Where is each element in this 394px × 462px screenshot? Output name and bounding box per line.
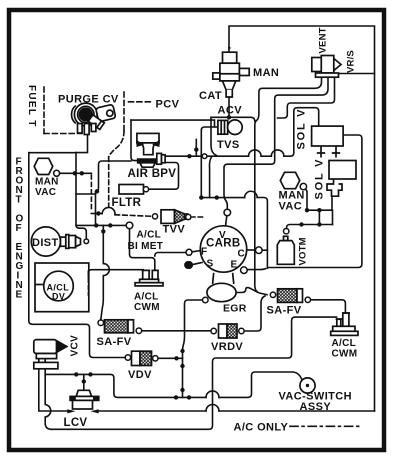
VRDV valve [219, 324, 238, 338]
wire: AIR BPV feed from enclosure y=194 [76, 193, 96, 195]
svg-text:E: E [231, 259, 238, 270]
SOL V 1 terminal pins [317, 146, 340, 158]
dashed fuel tank line vertical x=44 [43, 87, 45, 134]
svg-text:F: F [16, 223, 22, 234]
dashed PCV hook curve down to x=108.7 [109, 131, 124, 157]
svg-text:A/CL: A/CL [332, 338, 357, 349]
wire: VOTM line y=224.5 [287, 225, 333, 229]
svg-text:MAN: MAN [35, 177, 59, 188]
wire: solid FLTR tee line y=213.5 [91, 213, 102, 215]
wire 3: VR/S right leg to wire2 vertical [278, 77, 335, 118]
svg-text:SOL V: SOL V [296, 108, 308, 150]
port circle TVV right [186, 214, 191, 219]
port circle VDV right [153, 356, 158, 361]
port circle SA-FV 1 left [270, 292, 275, 297]
svg-text:VR/S: VR/S [346, 50, 357, 73]
wire: CARB F port stub [192, 251, 201, 252]
port circle trunk tap [202, 154, 207, 159]
wire hop on y=397.4 at x=212.5 [206, 391, 219, 398]
wire: AIR BPV top wire y=120.1 to TVS jog [131, 120, 215, 127]
wire: vertical x=103.3 from BIMET line to SA-FV2, hop over y=269.7 [101, 225, 110, 319]
A/C ONLY dash-dot line [290, 425, 361, 427]
svg-text:VDV: VDV [128, 369, 152, 381]
dashed line to TVV left port [115, 215, 152, 217]
wire: SA-FV2 left port riser stub [100, 319, 102, 321]
LCV valve [67, 390, 98, 413]
vac-switch center dot [306, 384, 309, 387]
dashed vertical x=108.7 to FLTR-line hop [108, 157, 110, 207]
wire: MAN VAC hexagon port to dashed drop [60, 172, 92, 174]
A/CL DV stub [35, 284, 44, 286]
wire: CARB C port stub to vertical [256, 249, 268, 251]
svg-text:DIST: DIST [32, 237, 59, 249]
svg-text:ASSY: ASSY [300, 401, 332, 413]
wire: FLTR port to AIR BPV barrel lower line [149, 163, 179, 190]
svg-text:SOL V: SOL V [314, 158, 326, 200]
port circle MAN VAC 1 [54, 170, 60, 176]
port circle SA-FV 1 right [305, 297, 310, 302]
svg-text:S: S [207, 258, 214, 269]
A/CL CWM 2 air cleaner [331, 313, 358, 335]
svg-text:VAC: VAC [279, 201, 303, 213]
dashed vertical x=91.4 [90, 175, 92, 212]
port circle VRDV right [239, 328, 244, 333]
svg-text:EGR: EGR [223, 303, 247, 315]
wire: VDV right port line to x=182.5 [158, 357, 182, 359]
svg-text:A/CL: A/CL [134, 292, 159, 303]
wire: trunk stub tap x=196.3 [195, 140, 197, 157]
wire: SA-FV1 right port to A/CL CWM2 [311, 300, 346, 313]
svg-text:DV: DV [52, 292, 65, 302]
left enclosure right edge x=76 with jog to DIST port [76, 153, 86, 239]
svg-text:SA-FV: SA-FV [97, 336, 132, 348]
purge solid stub to legs [76, 135, 88, 153]
port circle SA-FV 2 right [136, 328, 142, 334]
wire: VCV pipe right line down with hop over y=411, to y=429 line [45, 369, 51, 429]
svg-text:A/C ONLY: A/C ONLY [234, 422, 289, 434]
svg-text:VCV: VCV [70, 335, 81, 356]
wire: junction to SOL V1 right side riser x=361.9 [267, 135, 362, 268]
VR/S regulator [312, 56, 341, 78]
svg-text:E: E [16, 290, 23, 301]
svg-text:TVV: TVV [163, 224, 186, 236]
wire: EGR right arc up to SA-FV1 junction [236, 288, 258, 293]
FLTR filter [119, 185, 144, 195]
svg-text:AIR BPV: AIR BPV [128, 168, 177, 180]
svg-text:PURGE CV: PURGE CV [58, 94, 119, 106]
MAN VAC 2 hexagon [280, 172, 299, 188]
svg-text:FLTR: FLTR [112, 197, 142, 209]
port circle A/CL BIMET [126, 222, 133, 229]
MAN VAC 1 hexagon [34, 158, 53, 174]
CARB S plugged port [185, 262, 192, 268]
CARB carburetor circle [200, 226, 246, 272]
purge control valve PURGE CV [72, 103, 116, 134]
wire: CARB S plugged port stub [192, 263, 203, 265]
svg-text:SA-FV: SA-FV [267, 305, 302, 317]
wire: BIMET line y=225.4 from enclosure to port [76, 224, 126, 226]
wire: manifold line bottom y=411 right part with hop over x=212.5 [219, 410, 375, 412]
port circle SA-FV 2 left [98, 320, 104, 326]
A/CL DV circle [44, 271, 74, 301]
wire: CARB E port to junction [247, 269, 265, 270]
port circle VRDV left [211, 328, 216, 333]
dashed PCV label line y=102 [129, 101, 154, 103]
A/CL DV enclosure box [35, 263, 89, 312]
wire 2: VR/S middle leg stepping down to CARB V port [224, 77, 328, 209]
wire: y=429 line to vac-switch enclosure corner x=212.5 up to y=358 over to x=291.6 up to CWM2 [52, 317, 337, 429]
port circle DIST [84, 239, 89, 244]
svg-text:F: F [201, 247, 207, 258]
junction dots [73, 171, 77, 175]
LCV stem [83, 374, 85, 390]
wire: BIMET port drop to CWM1 right pipe [130, 229, 155, 271]
svg-text:FUEL T: FUEL T [26, 85, 37, 128]
A/CL CWM 1 air cleaner [135, 270, 163, 286]
wire: CARB C port stub from carb edge [247, 249, 256, 251]
wire: CAT ACV bottom stem drop [228, 98, 230, 118]
VCV valve [34, 340, 67, 369]
wire: CARB F port line joining same drop [155, 253, 186, 257]
port circle CARB V [224, 209, 231, 216]
port circle CARB F [186, 249, 192, 255]
wire: y=397.4 to vac-switch assy circle [219, 372, 302, 397]
AIR BPV valve [136, 133, 165, 167]
wire: VCV tee y=374.4 line [45, 374, 206, 397]
port circle TVV left [152, 214, 157, 219]
svg-text:CWM: CWM [134, 302, 160, 313]
wire: trunk y=156.2 from AIR BPV barrel to SOL V1 riser, hops at 254.8 and 277.6 [165, 155, 249, 157]
wire hop on y=213.5 over x=108.7 [102, 207, 115, 214]
port circle CARB C [255, 247, 262, 254]
port circle EGR left [203, 297, 209, 303]
wire: vertical x=95.5/98.5 from y=161 to y=225.4 [96, 161, 132, 225]
svg-text:LCV: LCV [64, 417, 88, 429]
svg-text:CARB: CARB [206, 237, 240, 249]
svg-text:PCV: PCV [156, 99, 180, 111]
svg-text:CAT: CAT [199, 90, 222, 102]
DIST distributor [31, 227, 80, 256]
svg-text:MAN: MAN [253, 67, 279, 79]
svg-text:BI MET: BI MET [128, 241, 164, 252]
svg-text:CWM: CWM [332, 349, 358, 360]
left enclosure left edge down and over to VDV [29, 153, 125, 358]
wire: MAN VAC2 port drop and y=210.2 run [306, 189, 333, 224]
SOL V 2 solenoid [327, 161, 356, 197]
svg-text:VAC: VAC [35, 187, 56, 198]
wire: VRDV right port up to SA-FV1 junction [244, 296, 265, 331]
SOL V 1 solenoid [312, 126, 344, 146]
VAC-SWITCH ASSY circle [300, 378, 315, 393]
svg-text:C: C [238, 248, 246, 259]
VDV valve [132, 351, 152, 365]
VOTM motor cup [277, 236, 294, 264]
dashed fuel tank line horizontal y=133.5 [44, 133, 82, 135]
CAT ACV valve [213, 48, 249, 97]
label FRONT OF ENGINE [16, 157, 24, 301]
port circle FLTR [143, 187, 148, 192]
svg-text:ACV: ACV [218, 104, 243, 116]
dashed line from TVV right port [191, 216, 203, 218]
svg-text:VENT: VENT [318, 27, 329, 53]
TVV valve body [161, 210, 188, 224]
svg-text:A/CL: A/CL [137, 230, 162, 241]
svg-text:TVS: TVS [217, 139, 240, 151]
EGR valve ellipse and mount [207, 273, 236, 302]
wire: AIR BPV left wrap [131, 120, 139, 161]
dashed PCV vertical x=124 [123, 92, 125, 131]
port circle MAN VAC 2 [300, 183, 306, 189]
wire: y=197.6 line with bump over wire1 [201, 197, 244, 199]
wire: manifold vacuum net top (CAT ACV stem to inner right line) [229, 26, 375, 411]
wire: TVS port stub and left run [201, 127, 218, 131]
port circle VDV left [125, 355, 130, 360]
wire: CARB V port stub to carb edge [226, 216, 227, 226]
wire: manifold line bottom y=411 left part to LCV and VCV pipe [39, 369, 206, 411]
left enclosure top edge [29, 152, 76, 154]
wire: SA-FV2 to VRDV line y=331 [142, 330, 211, 332]
svg-text:VOTM: VOTM [298, 237, 309, 265]
wire: TVS vertical x=201.3 down to y=197.6 [200, 131, 202, 198]
TVS switch [218, 120, 242, 135]
wire: VR/S tap to inner right line [339, 73, 375, 75]
wire: CAT ACV line y=117.3 [211, 117, 255, 121]
port circle VOTM top [284, 229, 289, 234]
SA-FV 2 valve [105, 320, 134, 333]
SA-FV 1 valve [278, 289, 303, 303]
port circle CARB E [241, 267, 248, 274]
wire: EGR left port to x=182.5 drop [183, 300, 203, 397]
dashed vertical x=88.4 down to A/CL DV box [87, 271, 89, 295]
svg-text:T: T [16, 195, 22, 206]
wire: wavy riser x=211 from y=117 to trunk and below to y=197.6 [211, 117, 216, 155]
wire: CWM1 left pipe feed y=269.7 [88, 270, 143, 277]
wire 1: VR/S left leg stepping down to SA-FV1 junction [255, 77, 322, 295]
wire hop on y=411 at x=212.5 [206, 405, 219, 412]
svg-text:VRDV: VRDV [211, 341, 243, 353]
